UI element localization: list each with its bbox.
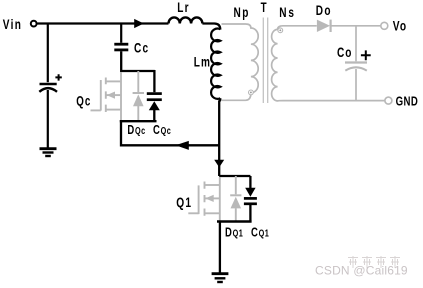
label CQ1 <box>251 226 269 240</box>
svg-text:Vin: Vin <box>3 16 22 32</box>
terminal Vo <box>381 22 388 29</box>
inductor Lm <box>211 29 220 99</box>
transformer secondary winding Ns <box>272 26 385 101</box>
transformer core <box>263 18 267 104</box>
plus sign output cap <box>361 50 371 60</box>
capacitor Cin curved plate <box>39 88 57 92</box>
label Lr <box>177 0 190 15</box>
diode DQc body diode <box>133 71 144 121</box>
svg-text:Vo: Vo <box>393 18 408 34</box>
label Vin <box>3 16 22 32</box>
label Do <box>316 2 332 18</box>
svg-text:CSDN @Cail619: CSDN @Cail619 <box>315 264 408 278</box>
wire clamp bottom rail <box>120 120 157 122</box>
label Q1 <box>176 194 192 210</box>
label GND <box>396 95 419 109</box>
label Ns <box>279 4 295 20</box>
wire Q1 bottom rail <box>217 220 252 222</box>
capacitor CQc with arrow <box>147 70 162 121</box>
svg-text:CQc: CQc <box>153 124 171 138</box>
wire Cc branch down <box>120 24 122 43</box>
wire top rail from Vin to Lr <box>37 22 168 24</box>
svg-text:Q1: Q1 <box>176 194 192 210</box>
transistor Q1 MOSFET <box>188 177 220 221</box>
svg-text:Lr: Lr <box>177 0 190 15</box>
svg-text:Lm: Lm <box>194 54 211 70</box>
wire Co to bottom rail <box>355 69 357 101</box>
label Vo <box>393 18 408 34</box>
transistor Qc MOSFET <box>91 72 122 121</box>
ground input <box>40 149 57 156</box>
polarity dot Np <box>249 90 254 95</box>
svg-text:T: T <box>261 1 268 16</box>
terminal GND <box>385 97 392 104</box>
capacitor Cin electrolytic top plate <box>40 83 57 86</box>
arrow current direction down on drain wire <box>214 160 224 168</box>
diode DQ1 body diode <box>230 176 241 222</box>
label Cc <box>134 40 149 56</box>
wire clamp return to drain node <box>121 120 220 145</box>
ground Q1 <box>212 274 229 282</box>
label DQc <box>127 124 145 138</box>
label T <box>261 1 268 16</box>
label CQc <box>153 124 171 138</box>
plus sign input cap <box>55 74 61 80</box>
diode Do <box>317 20 381 32</box>
svg-text:Cc: Cc <box>134 40 149 56</box>
wire Q1 source to ground <box>219 222 221 273</box>
wire Cc to clamp top rail <box>121 51 155 71</box>
inductor Lr <box>169 17 203 23</box>
svg-text:CQ1: CQ1 <box>251 226 269 240</box>
svg-text:DQ1: DQ1 <box>225 226 243 240</box>
label Np <box>234 4 250 20</box>
svg-text:Ns: Ns <box>279 4 295 20</box>
label Qc <box>76 94 91 109</box>
svg-text:Do: Do <box>316 2 332 18</box>
wire Co branch <box>355 26 357 62</box>
wire input branch down <box>47 24 49 83</box>
terminal Vin <box>31 21 37 27</box>
label Co <box>337 44 352 60</box>
wire Lr to Lm corner <box>202 24 220 30</box>
polarity dot Ns <box>278 28 283 33</box>
watermark text <box>348 256 400 268</box>
wire Lm bottom to Q1 drain node <box>219 98 220 176</box>
arrow current direction right on top rail <box>134 19 144 28</box>
transformer primary winding Np <box>222 24 259 100</box>
svg-text:Qc: Qc <box>76 94 91 109</box>
capacitor Co top plate <box>345 61 367 63</box>
capacitor CQ1 with arrow <box>244 176 257 222</box>
svg-text:Np: Np <box>234 4 250 20</box>
label Lm <box>194 54 211 70</box>
wire input cap to ground <box>47 90 49 148</box>
arrow current direction left on clamp return <box>176 141 189 150</box>
svg-text:DQc: DQc <box>127 124 145 138</box>
capacitor Cc <box>114 44 128 50</box>
svg-text:GND: GND <box>396 95 419 109</box>
capacitor Co curved plate <box>345 67 367 70</box>
label DQ1 <box>225 226 243 240</box>
wire Q1 clamp top rail <box>219 175 250 177</box>
svg-text:Co: Co <box>337 44 352 60</box>
